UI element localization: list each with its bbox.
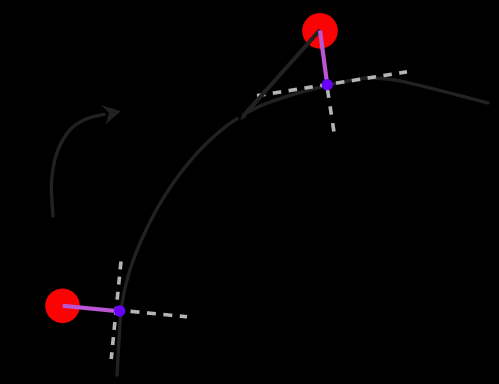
pen line from upper handle to curve xyxy=(245,30,321,115)
direction arrow head xyxy=(101,105,121,124)
lower tangent dashed line xyxy=(111,262,121,360)
pen nib xyxy=(240,113,247,121)
purple point upper xyxy=(322,79,333,90)
orchid connector upper xyxy=(320,31,327,85)
red handle dot lower xyxy=(45,289,80,324)
purple point lower xyxy=(114,305,125,316)
red handle dot upper xyxy=(302,13,338,49)
upper tangent dashed line xyxy=(257,72,407,96)
orchid connector lower xyxy=(63,306,120,312)
direction arrow shaft xyxy=(51,114,104,216)
gap in curve at pen tip xyxy=(239,114,246,120)
main traced curve (dark arc) xyxy=(117,78,488,375)
upper normal dashed line xyxy=(328,90,335,135)
lower normal dashed line xyxy=(131,311,188,317)
